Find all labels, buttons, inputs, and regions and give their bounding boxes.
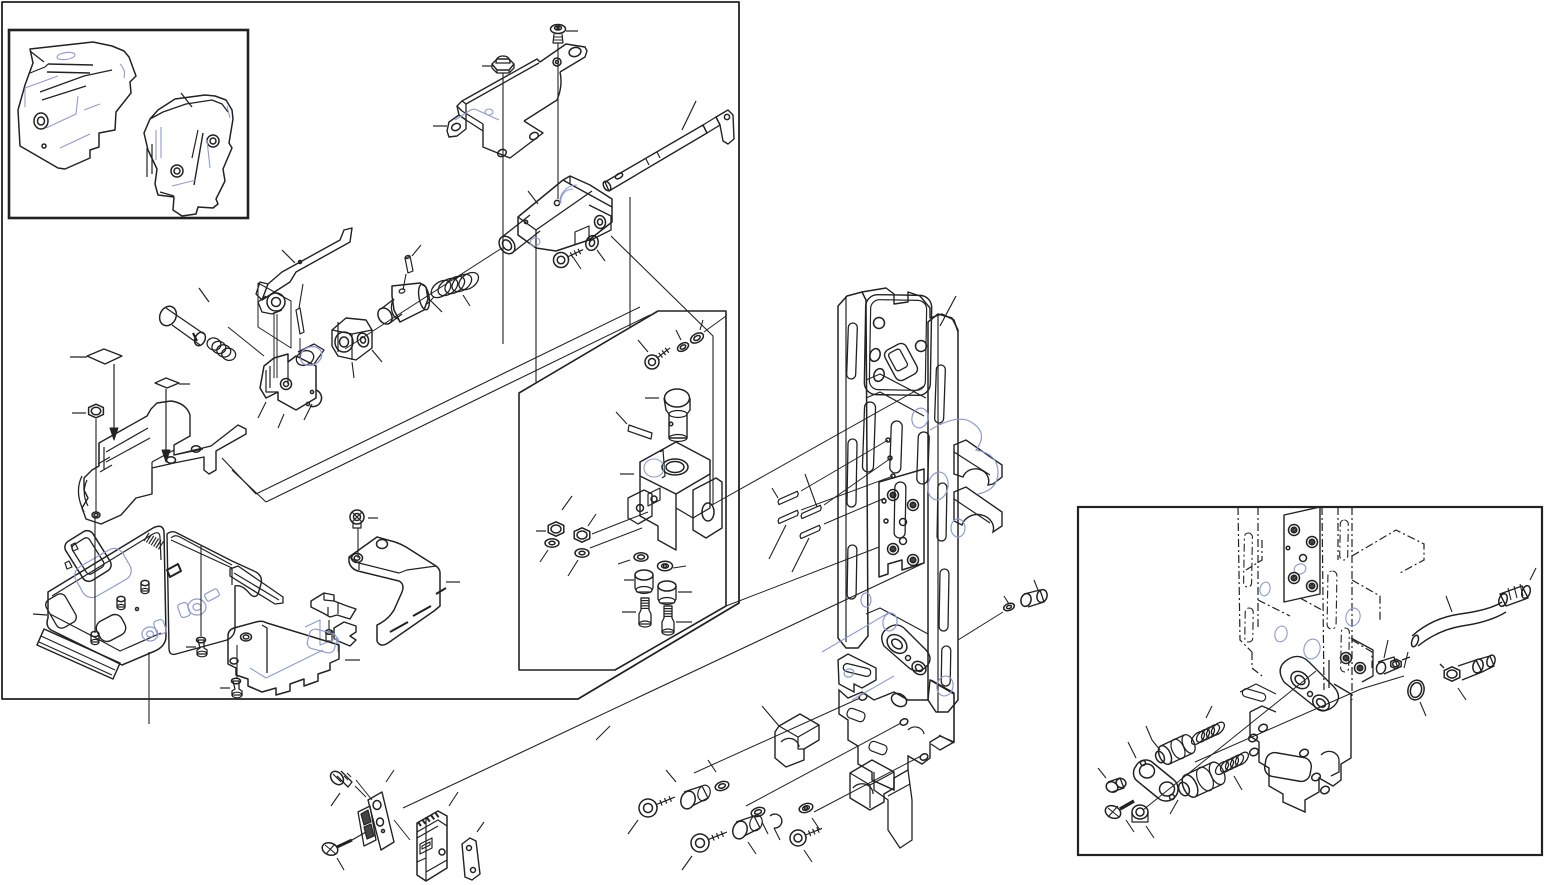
switch subplate	[358, 806, 376, 846]
mid washer 5	[618, 553, 648, 564]
rb flat screw	[1103, 801, 1134, 832]
rb fitting small	[1375, 640, 1410, 675]
right pivot part	[1240, 638, 1373, 812]
switch plate	[368, 770, 394, 850]
bot screw 2	[682, 831, 727, 870]
tray down leader	[148, 652, 150, 724]
rb hose fitting	[1440, 654, 1496, 700]
plate screw	[186, 637, 207, 657]
lower plate bracket	[228, 621, 360, 695]
bot washer 1	[708, 760, 730, 792]
flat screw 2	[320, 832, 366, 870]
small spring	[206, 336, 237, 362]
pin rod 4	[792, 525, 820, 572]
z screw	[350, 510, 378, 528]
pin rod 2	[801, 474, 821, 519]
z screw leader	[357, 528, 359, 558]
mid washer 3	[540, 539, 559, 562]
mushroom knob	[645, 389, 690, 442]
hex bolt left	[72, 404, 103, 418]
right bolt plate	[1284, 507, 1320, 602]
mid washer 2	[689, 316, 726, 345]
peanut flange	[1128, 742, 1178, 801]
pin rod 3	[769, 510, 798, 559]
cover part A	[18, 42, 136, 169]
saddle leaders	[596, 698, 921, 812]
double diagonal leader	[222, 307, 650, 502]
bot washer 2	[750, 806, 768, 834]
mid pin	[616, 412, 652, 439]
mid leader to block	[590, 512, 648, 548]
switch body	[417, 792, 458, 881]
leader line from flat screw	[557, 43, 559, 199]
small bushing right	[1019, 580, 1048, 608]
valve cart 1	[1146, 726, 1198, 766]
lever arm	[256, 228, 352, 314]
block leaders	[536, 197, 630, 382]
upper sheet bracket	[78, 401, 246, 524]
lower screw leader	[236, 645, 238, 678]
cover part B	[144, 93, 233, 216]
barrel cylinder	[375, 283, 442, 327]
inset box for covers	[9, 30, 248, 218]
clamp block	[620, 442, 722, 550]
switch cover plate	[462, 822, 484, 880]
saddle bracket	[775, 714, 894, 810]
lower tray bracket	[33, 526, 220, 665]
cup nut 2	[658, 581, 692, 605]
mast top leader	[940, 296, 956, 326]
cylinder block	[496, 176, 612, 257]
leader rect line	[611, 236, 713, 505]
set screw 1	[622, 598, 651, 627]
bot screw 1	[628, 796, 675, 834]
long switch leader	[403, 563, 924, 808]
rb bushing	[1098, 768, 1127, 794]
right axis line	[1143, 671, 1404, 810]
tiny pin 2	[403, 245, 421, 290]
pin cylinder	[157, 288, 209, 347]
arrow 1	[110, 364, 118, 440]
tiny pin 1	[296, 284, 304, 334]
rb spring 2	[1213, 750, 1251, 790]
bot washer 3	[798, 802, 820, 830]
pin leaders	[712, 386, 924, 606]
pin rod 1	[772, 488, 798, 505]
rb cup nut	[1132, 805, 1154, 838]
small washer right	[1003, 596, 1016, 612]
middle enclosure	[519, 311, 726, 670]
mast frame	[822, 288, 1002, 848]
axis line top	[228, 248, 502, 356]
arrow 2	[162, 389, 170, 462]
pan screw	[328, 769, 366, 806]
mid hexnut 1	[536, 496, 572, 536]
rb oring	[1406, 678, 1427, 716]
right inset box	[1078, 507, 1542, 855]
rb spring 1	[1189, 706, 1227, 747]
main view border box	[2, 2, 739, 699]
flat screw	[551, 25, 579, 44]
mid washer 4	[568, 549, 589, 576]
mid screw	[638, 340, 670, 369]
lever ghost box	[258, 283, 300, 378]
phantom rails	[1238, 507, 1424, 700]
plate screw leader	[200, 546, 202, 636]
hexbolt long leader	[95, 419, 96, 633]
big spring	[427, 269, 482, 306]
block screw	[554, 249, 584, 269]
block washer	[584, 234, 605, 261]
cup nut 1	[624, 570, 653, 594]
clevis bracket	[258, 343, 325, 428]
bot c washer	[770, 814, 782, 840]
e-ring	[304, 390, 322, 420]
clamp fingers	[305, 593, 356, 652]
top bracket	[433, 44, 587, 158]
cube block	[332, 318, 382, 378]
rb ferrule	[1497, 568, 1536, 607]
shaft rod	[602, 101, 734, 192]
set screw 2	[662, 606, 692, 635]
mid hexnut 2	[574, 514, 596, 542]
bot bushing 1	[666, 770, 712, 811]
leader from hex plug	[502, 73, 504, 344]
bot bushing 2	[731, 814, 765, 854]
switch links	[356, 780, 410, 840]
diamond label 2	[155, 378, 190, 388]
mid washer 1	[676, 330, 690, 353]
valve cart 2	[1170, 760, 1228, 814]
bushing leader	[958, 612, 1003, 640]
lower screw 2	[220, 678, 242, 698]
tray ring wall	[62, 528, 114, 584]
hex plug	[482, 56, 514, 73]
rb hose	[1404, 596, 1506, 668]
mid washer 6	[658, 561, 687, 570]
l angle bar	[230, 566, 283, 604]
bot screw 3	[790, 827, 822, 862]
z bracket	[349, 537, 460, 645]
slanted plate	[167, 532, 261, 655]
diamond label 1	[70, 349, 122, 364]
tray bottom flange	[37, 629, 120, 679]
